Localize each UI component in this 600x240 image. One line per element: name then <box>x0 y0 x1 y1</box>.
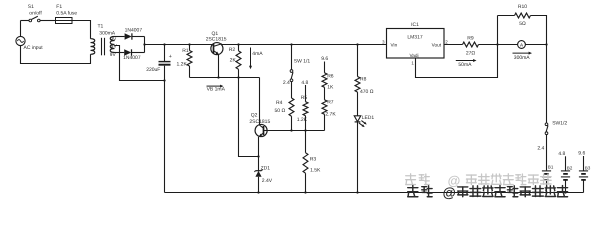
wire Vout to R9 <box>444 44 463 46</box>
wire center tap return <box>115 46 165 81</box>
wire zener to bottom bus <box>258 177 260 193</box>
svg-text:AC input: AC input <box>24 45 44 51</box>
capacitor C1 220uF <box>146 45 172 73</box>
svg-text:on/off: on/off <box>29 10 42 16</box>
svg-text:9.6: 9.6 <box>321 56 328 62</box>
battery B3 <box>579 166 591 193</box>
svg-text:B2: B2 <box>567 165 573 170</box>
ammeter A <box>518 41 526 49</box>
svg-text:4mA: 4mA <box>252 51 263 57</box>
svg-text:LED1: LED1 <box>362 115 375 121</box>
wire D2 to bridge junction <box>132 52 145 54</box>
wire secondary bottom to D2 <box>115 52 125 54</box>
transistor Q1 2SC1815 <box>206 31 227 55</box>
svg-text:9V: 9V <box>110 36 117 42</box>
wire R10 top left <box>498 15 515 17</box>
resistor R10 5 ohm <box>515 4 531 27</box>
resistor R1 1.2K <box>177 45 192 78</box>
diode D1 1N4007 <box>125 28 143 40</box>
svg-text:2.4V: 2.4V <box>262 178 273 184</box>
svg-text:2.7K: 2.7K <box>325 112 336 118</box>
zener ZD1 2.4V <box>254 165 272 184</box>
svg-text:R5: R5 <box>301 95 308 101</box>
watermark zhihu light <box>406 173 551 188</box>
svg-text:1.2K: 1.2K <box>297 117 308 123</box>
svg-text:SW 1/1: SW 1/1 <box>294 59 311 65</box>
svg-text:T1: T1 <box>98 23 104 29</box>
resistor R9 27 ohm <box>463 36 479 57</box>
wire output node up to R10 <box>497 16 499 45</box>
wire AC bottom loop <box>21 46 91 64</box>
annotation 4mA current arrow <box>250 48 252 68</box>
switch SW 1/1 <box>290 45 310 82</box>
svg-text:R3: R3 <box>310 156 317 162</box>
annotation VB 1mA <box>207 85 222 87</box>
svg-text:1.2K: 1.2K <box>177 61 188 67</box>
wire node A down to zener rail <box>239 78 259 157</box>
svg-text:4.8: 4.8 <box>558 151 565 157</box>
battery B1 <box>542 165 554 193</box>
svg-text:R10: R10 <box>518 4 527 10</box>
svg-text:@: @ <box>443 185 456 200</box>
switch S1 on/off <box>28 4 43 22</box>
svg-text:2SC1815: 2SC1815 <box>249 119 270 125</box>
wire secondary top to D1 <box>115 36 125 38</box>
svg-text:1K: 1K <box>327 84 334 90</box>
AC source <box>16 21 43 52</box>
svg-text:1: 1 <box>411 61 414 66</box>
bottom ground bus <box>165 192 584 194</box>
annotation 300mA <box>513 52 530 54</box>
resistor R7 2.7K <box>322 100 336 118</box>
svg-text:LM317: LM317 <box>407 35 423 41</box>
svg-text:2K: 2K <box>230 58 237 64</box>
wire Q1 emitter down <box>218 55 220 78</box>
fuse F1 0.5A <box>56 4 78 23</box>
svg-text:9.6: 9.6 <box>578 151 585 157</box>
svg-text:R2: R2 <box>229 47 236 53</box>
diode D2 1N4007 <box>123 49 141 61</box>
annotation 50mA <box>456 60 475 62</box>
svg-text:2.4: 2.4 <box>537 146 544 152</box>
resistor R4 50 ohm <box>275 82 294 131</box>
wire main bus left segment <box>145 44 213 46</box>
wire 4.8 stub to B2 <box>565 156 567 171</box>
svg-text:SW1/2: SW1/2 <box>552 120 567 126</box>
svg-text:F1: F1 <box>56 4 62 10</box>
resistor R5 1.2K <box>297 85 308 131</box>
wire S1 to F1 <box>40 20 55 22</box>
svg-text:3: 3 <box>382 40 385 45</box>
svg-text:Vout: Vout <box>432 43 442 48</box>
svg-text:R6: R6 <box>327 74 334 80</box>
svg-text:B3: B3 <box>585 166 591 171</box>
svg-text:R1: R1 <box>182 48 189 54</box>
wire AC source to switch <box>21 20 30 22</box>
svg-text:R4: R4 <box>276 100 283 106</box>
svg-text:220uF: 220uF <box>146 67 160 73</box>
svg-text:50mA: 50mA <box>458 62 472 68</box>
transistor Q2 2SC1815 <box>249 112 270 136</box>
watermark toutiao dark <box>408 185 568 200</box>
resistor R3 1.5K <box>303 131 321 193</box>
svg-text:IC1: IC1 <box>411 22 419 28</box>
svg-text:0.5A fuse: 0.5A fuse <box>56 11 77 17</box>
wire 9.6 stub to B3 <box>583 156 585 171</box>
node A emitter rail <box>190 77 260 79</box>
svg-text:VB 1mA: VB 1mA <box>207 87 226 93</box>
wire cap bottom to ground drop <box>164 66 166 193</box>
wire Q2 collector up to node A <box>259 78 261 125</box>
svg-text:B1: B1 <box>548 165 554 170</box>
svg-text:Q2: Q2 <box>251 112 258 118</box>
svg-text:R7: R7 <box>327 100 334 106</box>
svg-text:5Ω: 5Ω <box>519 21 526 27</box>
svg-text:Vin: Vin <box>391 43 398 48</box>
svg-text:50 Ω: 50 Ω <box>275 108 286 114</box>
wire R10 top right <box>531 16 547 45</box>
regulator IC1 LM317 <box>387 22 445 58</box>
wire D1 to bridge junction <box>132 36 145 38</box>
svg-text:300mA: 300mA <box>99 31 116 37</box>
svg-text:2.4: 2.4 <box>283 80 290 86</box>
svg-text:9V: 9V <box>111 44 118 50</box>
svg-text:27Ω: 27Ω <box>466 51 476 57</box>
svg-text:S1: S1 <box>28 4 34 10</box>
wire output main through ammeter <box>498 44 547 46</box>
resistor R6 1K <box>322 73 334 91</box>
wire R6 to R7 <box>324 87 326 100</box>
svg-text:R9: R9 <box>467 36 474 42</box>
svg-text:ZD1: ZD1 <box>261 165 271 171</box>
Q2 base rail <box>267 130 325 132</box>
wire LED to bottom bus <box>357 122 359 192</box>
wire R9 to output node <box>479 44 498 46</box>
wire main bus right of Q1 <box>222 44 387 46</box>
wire Vadj feedback <box>416 45 498 78</box>
svg-text:1N4007: 1N4007 <box>123 55 141 61</box>
switch SW1/2 <box>545 45 567 135</box>
svg-text:2SC1815: 2SC1815 <box>206 36 227 42</box>
svg-text:300mA: 300mA <box>514 55 531 61</box>
resistor R2 2K <box>229 45 241 78</box>
svg-text:Vadj: Vadj <box>409 53 418 58</box>
svg-text:+: + <box>169 54 172 60</box>
svg-text:1N4007: 1N4007 <box>125 28 143 34</box>
wire SW1/2 to B1 <box>546 135 548 171</box>
transformer T1 300mA <box>91 23 116 55</box>
wire R7 down to base rail <box>324 114 326 130</box>
svg-text:470 Ω: 470 Ω <box>360 89 374 95</box>
battery B2 <box>561 165 573 192</box>
wire Q2 emitter down <box>258 137 260 157</box>
wire F1 to transformer primary <box>72 21 91 39</box>
LED1 <box>354 115 374 127</box>
resistor R8 470 ohm <box>355 45 374 116</box>
svg-text:R8: R8 <box>360 77 367 83</box>
svg-text:2: 2 <box>445 40 448 45</box>
wire zener drop <box>258 157 260 171</box>
wire 9.6 stub <box>324 62 326 73</box>
svg-text:1.5K: 1.5K <box>310 168 321 174</box>
bridge output junction <box>144 37 146 53</box>
